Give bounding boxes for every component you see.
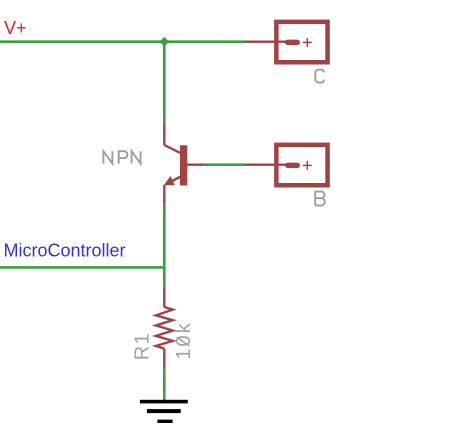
svg-text:10k: 10k <box>173 321 195 359</box>
svg-text:MicroController: MicroController <box>4 240 126 260</box>
svg-text:V+: V+ <box>4 18 27 38</box>
svg-text:R1: R1 <box>131 332 153 360</box>
